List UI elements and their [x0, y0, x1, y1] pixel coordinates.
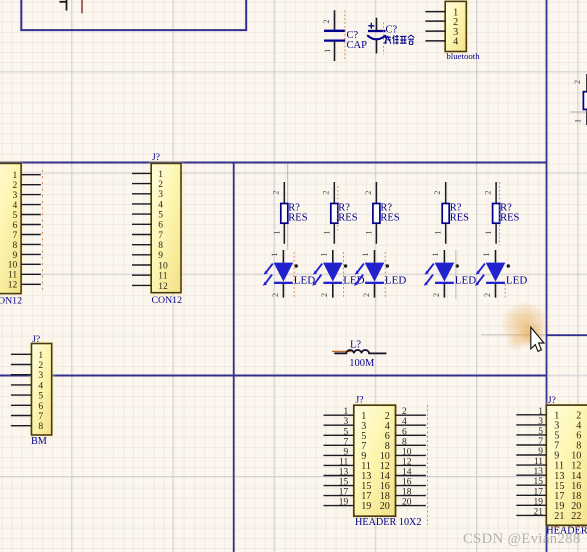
- svg-text:8: 8: [38, 421, 43, 432]
- svg-text:8: 8: [12, 241, 17, 251]
- connector J? bluetooth: [425, 0, 480, 61]
- junction dot (LED col 3): [386, 264, 389, 267]
- svg-text:4: 4: [158, 200, 163, 210]
- svg-text:1: 1: [272, 231, 281, 235]
- LED emission arrows (col 2): [316, 264, 323, 273]
- junction dot (LED col 1): [295, 264, 298, 267]
- svg-text:1: 1: [364, 231, 373, 235]
- junction dot (LED col 5): [507, 264, 510, 267]
- svg-text:2: 2: [432, 293, 441, 297]
- svg-text:1: 1: [158, 170, 163, 180]
- LED LED? (column 4): [424, 250, 476, 299]
- svg-text:7: 7: [12, 231, 17, 241]
- svg-text:2: 2: [322, 191, 331, 195]
- svg-text:3: 3: [344, 417, 349, 427]
- svg-text:1: 1: [482, 253, 491, 257]
- svg-text:11: 11: [534, 457, 543, 467]
- svg-text:J?: J?: [356, 395, 364, 405]
- junction dot (LED col 4): [456, 264, 459, 267]
- svg-text:19: 19: [339, 498, 349, 508]
- svg-text:9: 9: [12, 251, 17, 261]
- connector J? CON12: [132, 153, 182, 306]
- resistor (partial, right edge): [570, 74, 587, 125]
- svg-text:RES: RES: [288, 212, 307, 223]
- capacitor C? (polarized, electrolytic): [367, 18, 414, 55]
- svg-text:15: 15: [339, 478, 349, 488]
- svg-text:19: 19: [361, 501, 371, 512]
- svg-text:RES: RES: [380, 212, 399, 223]
- svg-text:5: 5: [12, 211, 17, 221]
- wire: horizontal net line lower (y=375.5): [0, 375, 547, 377]
- svg-text:1: 1: [320, 253, 329, 257]
- svg-text:2: 2: [320, 293, 329, 297]
- svg-text:1: 1: [574, 119, 583, 123]
- LED emission arrows (col 5): [478, 264, 485, 273]
- selection marker (orange segment): [332, 350, 352, 352]
- svg-text:17: 17: [339, 488, 349, 498]
- svg-text:4: 4: [402, 417, 407, 427]
- svg-text:1: 1: [484, 231, 493, 235]
- connector J? CON12 (left, partially off-screen): [0, 162, 42, 306]
- svg-text:8: 8: [402, 437, 407, 447]
- resistor R? (column 4): [433, 182, 469, 244]
- svg-text:6: 6: [402, 427, 407, 437]
- svg-text:1: 1: [538, 407, 543, 417]
- junction dot (LED col 2): [344, 264, 347, 267]
- svg-text:HEADER 10X2: HEADER 10X2: [355, 517, 422, 528]
- svg-text:1: 1: [322, 231, 331, 235]
- svg-text:2: 2: [483, 293, 492, 297]
- wire: horizontal stub right of x=546 (y=335): [546, 334, 587, 336]
- LED emission arrows (col 3): [357, 264, 364, 273]
- svg-text:3: 3: [538, 417, 543, 427]
- svg-text:13: 13: [534, 467, 544, 477]
- svg-text:17: 17: [534, 487, 544, 497]
- selection marker (orange dashed): [499, 182, 501, 245]
- wire: vertical net line full height (x=546.5): [546, 0, 548, 552]
- mouse cursor arrow: [531, 327, 544, 351]
- svg-text:2: 2: [573, 80, 582, 84]
- svg-text:7: 7: [158, 231, 163, 241]
- selection marker (orange dashed): [337, 186, 339, 232]
- svg-text:2: 2: [272, 191, 281, 195]
- svg-text:10: 10: [158, 261, 168, 271]
- svg-text:11: 11: [158, 272, 167, 282]
- svg-text:5: 5: [158, 211, 163, 221]
- svg-text:LED: LED: [506, 274, 527, 286]
- svg-text:19: 19: [534, 497, 544, 507]
- svg-text:6: 6: [12, 221, 17, 231]
- value label 极性电容 (drawn strokes): [385, 35, 391, 44]
- svg-text:bluetooth: bluetooth: [446, 51, 480, 61]
- svg-text:100M: 100M: [349, 358, 375, 369]
- svg-text:2: 2: [402, 407, 407, 417]
- svg-text:2: 2: [158, 180, 163, 190]
- svg-text:5: 5: [538, 427, 543, 437]
- svg-text:20: 20: [380, 501, 390, 512]
- resistor R? (column 2): [322, 182, 358, 244]
- svg-text:4: 4: [12, 201, 17, 211]
- svg-text:2: 2: [12, 181, 17, 191]
- svg-text:C?: C?: [386, 25, 398, 36]
- svg-text:2: 2: [484, 191, 493, 195]
- svg-text:J?: J?: [152, 153, 160, 163]
- LED LED? (column 5): [475, 250, 527, 299]
- capacitor C? (CAP): [322, 10, 367, 61]
- svg-text:1: 1: [12, 171, 17, 181]
- svg-text:2: 2: [322, 20, 331, 24]
- svg-text:RES: RES: [338, 212, 357, 223]
- partial component pins inside top-left box: [60, 0, 83, 13]
- selection marker (orange dashes at pin ends): [41, 170, 43, 291]
- svg-text:2: 2: [362, 293, 371, 297]
- svg-text:13: 13: [339, 468, 349, 478]
- svg-text:16: 16: [402, 478, 412, 488]
- svg-text:9: 9: [158, 251, 163, 261]
- cursor highlight glow: [500, 301, 550, 347]
- LED emission arrows (col 4): [427, 264, 434, 273]
- svg-text:6: 6: [158, 221, 163, 231]
- svg-text:LED: LED: [294, 274, 315, 286]
- svg-text:14: 14: [402, 468, 412, 478]
- LED LED? (column 2): [312, 250, 364, 298]
- selection marker (orange dashed): [383, 23, 385, 55]
- svg-text:1: 1: [270, 253, 279, 257]
- svg-text:1: 1: [431, 253, 440, 257]
- selection marker (orange dashed): [427, 405, 429, 525]
- svg-text:L?: L?: [350, 340, 361, 351]
- svg-text:CSDN @Evian288: CSDN @Evian288: [463, 531, 581, 547]
- svg-text:9: 9: [344, 447, 349, 457]
- selection marker (orange dashed): [504, 284, 506, 299]
- selection marker (orange dashed): [344, 11, 346, 62]
- svg-text:CON12: CON12: [152, 295, 183, 306]
- svg-text:1: 1: [344, 407, 349, 417]
- wire: faint grey continuation left of junction (y=334.8): [481, 334, 545, 336]
- svg-text:21: 21: [534, 507, 544, 517]
- selection marker (orange dashed): [343, 252, 345, 297]
- svg-text:7: 7: [538, 437, 543, 447]
- svg-text:3: 3: [12, 191, 17, 201]
- connector J? BM: [11, 335, 53, 447]
- resistor R? (column 1): [272, 164, 308, 250]
- svg-text:2: 2: [364, 191, 373, 195]
- resistor R? (column 3): [364, 182, 400, 244]
- svg-text:LED: LED: [455, 274, 476, 286]
- svg-text:4: 4: [453, 37, 458, 48]
- svg-text:8: 8: [158, 241, 163, 251]
- svg-text:LED: LED: [385, 274, 406, 286]
- LED LED? (column 3): [354, 250, 406, 298]
- svg-text:J?: J?: [32, 335, 40, 345]
- svg-text:15: 15: [534, 477, 544, 487]
- svg-text:1: 1: [323, 49, 332, 53]
- svg-text:1: 1: [361, 253, 370, 257]
- svg-text:12: 12: [8, 281, 18, 291]
- svg-text:CON12: CON12: [0, 295, 22, 306]
- wire: vertical net line (x=233.7): [233, 162, 235, 552]
- svg-text:2: 2: [271, 293, 280, 297]
- selection marker (orange dashed): [384, 252, 386, 297]
- svg-text:18: 18: [402, 488, 412, 498]
- svg-text:12: 12: [402, 457, 412, 467]
- svg-text:20: 20: [402, 498, 412, 508]
- svg-text:5: 5: [344, 427, 349, 437]
- svg-text:22: 22: [571, 511, 581, 522]
- svg-text:BM: BM: [31, 436, 47, 447]
- svg-text:11: 11: [339, 457, 348, 467]
- svg-text:7: 7: [344, 437, 349, 447]
- LED emission arrows (col 1): [266, 264, 273, 273]
- resistor R? (column 5): [484, 182, 520, 245]
- svg-text:12: 12: [158, 282, 168, 292]
- svg-text:10: 10: [402, 447, 412, 457]
- svg-text:9: 9: [538, 447, 543, 457]
- selection marker (orange dashes over label): [551, 526, 584, 528]
- LED LED? (column 1): [263, 250, 315, 298]
- svg-text:2: 2: [433, 191, 442, 195]
- svg-text:J?: J?: [548, 396, 556, 406]
- svg-text:10: 10: [8, 261, 18, 271]
- connector J? HEADER 11X2 (right, partially off-screen): [516, 396, 587, 536]
- polarity plus sign: [368, 23, 374, 29]
- svg-text:11: 11: [8, 271, 17, 281]
- svg-text:RES: RES: [500, 212, 519, 223]
- svg-text:21: 21: [554, 511, 564, 522]
- selection marker (orange dashed): [293, 252, 295, 297]
- partial component box (top-left, cut off above): [21, 0, 246, 30]
- wire: horizontal net line upper (y=162): [0, 162, 547, 164]
- svg-text:CAP: CAP: [347, 40, 368, 51]
- connector J? HEADER 10X2: [324, 395, 428, 528]
- svg-text:3: 3: [158, 190, 163, 200]
- svg-text:1: 1: [434, 231, 443, 235]
- svg-text:RES: RES: [450, 212, 469, 223]
- inductor L? 100M: [332, 340, 386, 370]
